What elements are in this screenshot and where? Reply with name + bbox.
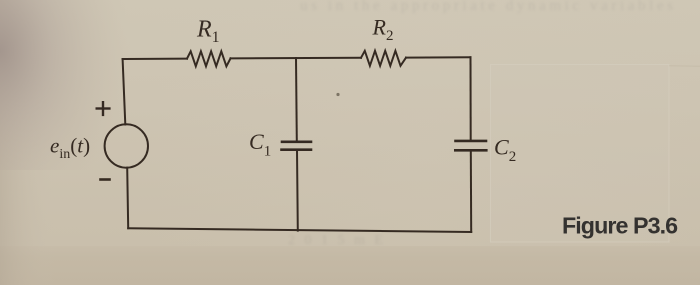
svg-text:us in the appropriate dynamic: us in the appropriate dynamic variables — [300, 0, 677, 14]
wire left vertical lower — [127, 168, 128, 229]
crease line right — [669, 65, 700, 67]
bottom darker band — [0, 246, 700, 285]
label R1 — [196, 17, 220, 47]
wire R2 to top-right corner — [406, 56, 471, 58]
resistor R1 — [187, 51, 231, 66]
wire right vertical lower — [470, 150, 472, 232]
wire middle vertical upper — [295, 58, 298, 141]
embossed rectangle impression on right — [491, 65, 670, 243]
wire right vertical upper — [470, 57, 472, 140]
ghost bleedthrough text top — [300, 0, 677, 14]
wire R1 to R2 — [231, 57, 362, 60]
left edge shading — [0, 0, 55, 285]
wire left vertical upper — [123, 59, 126, 125]
resistor R2 — [361, 51, 406, 66]
slightly lighter mid column — [150, 0, 700, 285]
svg-text:Figure P3.6: Figure P3.6 — [562, 212, 678, 238]
top-left smudge — [0, 0, 130, 170]
minus sign — [101, 178, 110, 181]
plus sign — [97, 102, 110, 115]
printing speck — [336, 93, 339, 96]
label C1 — [249, 129, 271, 160]
label e_in(t) — [50, 134, 90, 163]
wire top-left to R1 — [123, 58, 187, 60]
voltage source e_in(t) — [105, 124, 148, 167]
svg-text:2 0 1 5 m E: 2 0 1 5 m E — [288, 233, 386, 248]
wire bottom — [128, 228, 471, 232]
caption Figure P3.6 — [562, 212, 678, 238]
ghost bleedthrough text bottom — [288, 233, 386, 248]
label R2 — [372, 15, 394, 45]
capacitor C1 — [282, 142, 312, 150]
label C2 — [494, 135, 516, 166]
capacitor C2 — [455, 141, 486, 150]
wire middle vertical lower — [296, 150, 299, 231]
